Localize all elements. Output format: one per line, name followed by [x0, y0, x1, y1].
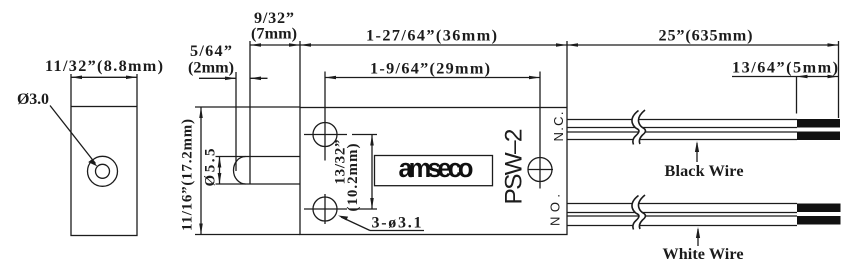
- hole top-left: [313, 123, 337, 147]
- svg-text:White Wire: White Wire: [663, 245, 744, 263]
- svg-text:NO.: NO.: [548, 194, 563, 226]
- svg-text:25”(635mm): 25”(635mm): [659, 27, 753, 45]
- svg-text:11/16”(17.2mm): 11/16”(17.2mm): [180, 119, 196, 231]
- svg-text:N.C.: N.C.: [551, 112, 566, 142]
- white wire tips: [797, 204, 841, 213]
- svg-text:11/32”(8.8mm): 11/32”(8.8mm): [45, 57, 163, 75]
- svg-text:1-9/64”(29mm): 1-9/64”(29mm): [370, 60, 490, 78]
- svg-text:(2mm): (2mm): [188, 59, 234, 77]
- svg-text:amseco: amseco: [399, 155, 473, 183]
- svg-text:3-ø3.1: 3-ø3.1: [372, 215, 422, 232]
- svg-text:(7mm): (7mm): [251, 25, 297, 43]
- svg-text:1-27/64”(36mm): 1-27/64”(36mm): [366, 27, 497, 45]
- svg-text:Black Wire: Black Wire: [665, 162, 744, 180]
- svg-text:5/64”: 5/64”: [190, 42, 232, 60]
- switch body: [300, 108, 567, 235]
- hole right: [528, 158, 552, 182]
- black wire break: [632, 110, 645, 145]
- svg-text:Ø3.0: Ø3.0: [17, 91, 49, 108]
- white wire break: [632, 195, 645, 230]
- magnet hole: [88, 156, 118, 186]
- black wire: [567, 119, 797, 121]
- svg-text:(10.2mm): (10.2mm): [345, 144, 361, 212]
- svg-text:PSW–2: PSW–2: [501, 129, 528, 205]
- nameplate: [375, 156, 493, 186]
- hole bottom-left: [313, 197, 337, 221]
- white wire: [567, 203, 797, 205]
- magnet body: [71, 107, 137, 236]
- svg-text:Ø5.5: Ø5.5: [203, 149, 219, 187]
- svg-text:13/64”(5mm): 13/64”(5mm): [732, 59, 838, 77]
- black wire tips: [797, 119, 840, 128]
- sensing nose: [216, 156, 301, 158]
